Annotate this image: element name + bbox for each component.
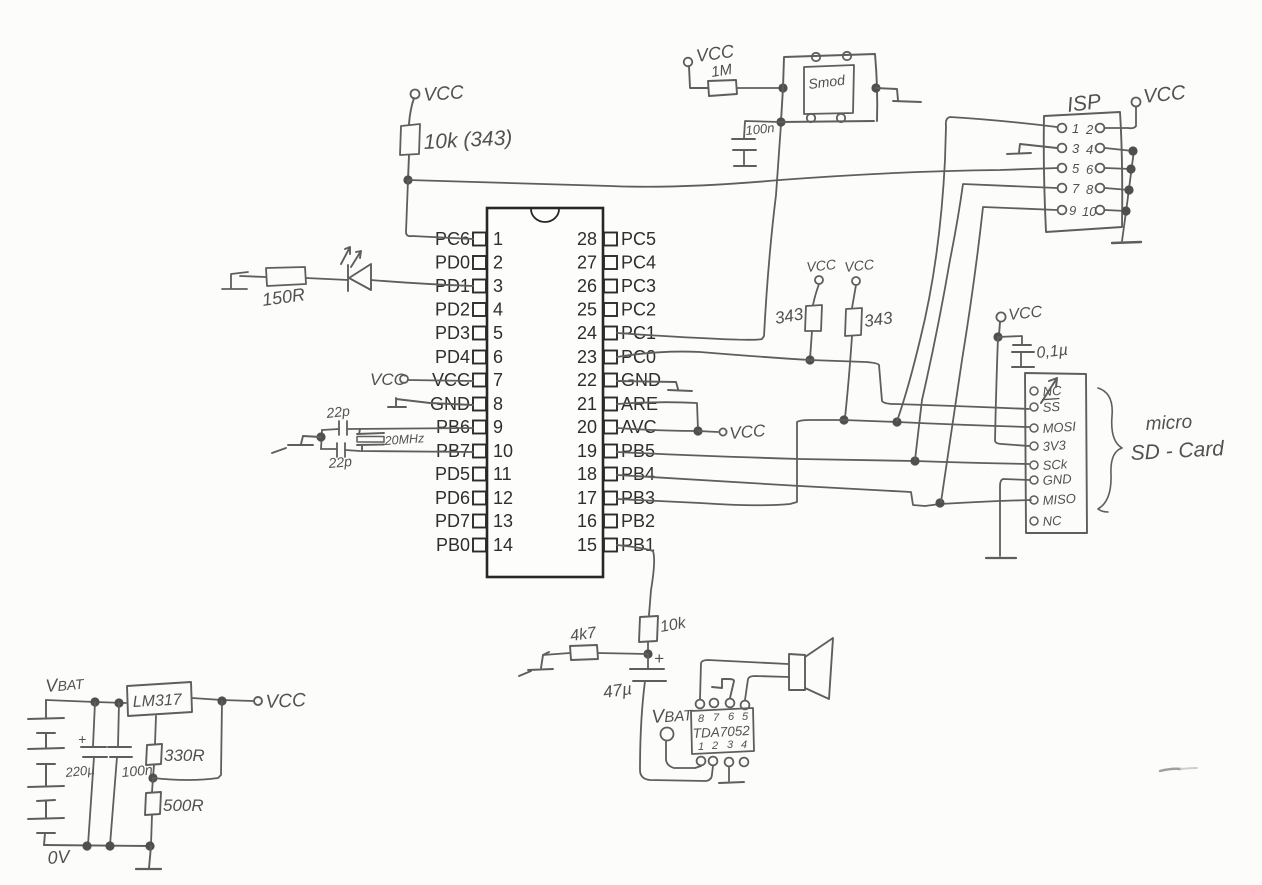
VCC terminal pin7	[370, 370, 473, 389]
wire TDA pin5 to speaker	[745, 676, 789, 700]
resistor R4 343	[845, 308, 894, 336]
ground (Smod right)	[876, 88, 921, 102]
svg-text:+: +	[78, 731, 86, 747]
ISP pin numbers	[1069, 121, 1097, 219]
capacitor C3 100n	[732, 120, 781, 165]
wire ISP pin8 to gnd bus	[1105, 188, 1129, 190]
wire R5 to node A	[737, 87, 783, 89]
svg-text:5: 5	[493, 323, 503, 343]
wire TDA pin8 to speaker	[700, 660, 788, 699]
regulator U3 LM317	[127, 682, 192, 716]
svg-text:MISO: MISO	[1042, 491, 1076, 508]
svg-text:PB5: PB5	[621, 441, 655, 461]
ground (C4)	[1012, 366, 1034, 368]
svg-text:1: 1	[1072, 121, 1079, 136]
svg-text:PB0: PB0	[436, 535, 470, 555]
wire LED to PD1 pin3	[371, 280, 473, 286]
svg-text:220µ: 220µ	[64, 762, 96, 780]
capacitor C2 22p	[321, 443, 353, 471]
node AVCC junction	[693, 426, 702, 435]
svg-text:8: 8	[698, 713, 705, 725]
svg-text:VCC: VCC	[1142, 82, 1187, 108]
wire ISP pin4 to gnd bus	[1105, 148, 1133, 151]
svg-text:22p: 22p	[327, 453, 353, 471]
U1 right pin labels	[621, 229, 661, 555]
ISP pin circles right	[1096, 124, 1105, 215]
svg-text:19: 19	[577, 441, 597, 461]
wire node A down to 100n node	[781, 88, 783, 121]
svg-text:PB2: PB2	[621, 511, 655, 531]
wire R7 to node E	[598, 653, 648, 654]
svg-text:22: 22	[577, 370, 597, 390]
resistor R7 4k7	[569, 624, 598, 660]
svg-text:3: 3	[493, 276, 503, 296]
VCC terminal (SD)	[996, 303, 1043, 323]
ground pin8	[388, 398, 473, 407]
VCC terminal (ISP)	[1132, 82, 1188, 108]
svg-text:PD5: PD5	[435, 464, 470, 484]
wire battery top rail	[46, 700, 126, 703]
svg-text:3: 3	[727, 739, 734, 751]
wire VCC to R5	[689, 66, 708, 88]
wire R1 to node RESET	[408, 155, 409, 180]
VCC terminal (top left)	[411, 82, 465, 106]
svg-text:VCC: VCC	[423, 82, 465, 106]
svg-text:0,1µ: 0,1µ	[1036, 342, 1069, 362]
ground (C3)	[734, 165, 756, 167]
svg-text:17: 17	[577, 488, 597, 508]
VCC terminal (psu out)	[254, 690, 307, 713]
svg-text:16: 16	[577, 511, 597, 531]
svg-text:7: 7	[493, 370, 503, 390]
resistor R2 150R	[261, 267, 306, 310]
wire AVCC pin20 to node	[617, 428, 698, 431]
node MOSI/ISP junction	[892, 417, 901, 426]
node C junction (100n)	[776, 117, 785, 126]
wire PB6 pin9 to C1	[348, 428, 473, 429]
ISP connector box	[1044, 90, 1123, 232]
svg-text:VCC: VCC	[1008, 303, 1044, 323]
svg-text:PD4: PD4	[435, 347, 470, 367]
VCC terminal (pullup R4)	[844, 256, 876, 308]
wire module bottom	[781, 121, 874, 122]
ground (ISP bus)	[1112, 242, 1141, 243]
svg-text:PD3: PD3	[435, 323, 470, 343]
wire node RESET to PC6 pin1	[406, 180, 473, 239]
svg-text:18: 18	[577, 464, 597, 484]
svg-text:6: 6	[1086, 162, 1094, 177]
capacitor C6 220u	[64, 702, 107, 845]
svg-text:PC4: PC4	[621, 253, 656, 273]
svg-text:25: 25	[577, 300, 597, 320]
resistor R1 10k pull-up	[400, 124, 513, 155]
svg-text:VCC: VCC	[806, 256, 838, 275]
svg-text:VBAT: VBAT	[651, 704, 695, 728]
stub TDA pin6	[712, 679, 734, 698]
svg-text:4: 4	[1086, 142, 1093, 157]
ground (crystal)	[272, 436, 321, 453]
U1 pin numbers 1-14	[493, 229, 513, 555]
svg-text:1M: 1M	[710, 61, 734, 81]
wire ISP pin1 to MOSI node	[897, 117, 1057, 421]
svg-text:13: 13	[493, 511, 513, 531]
TDA bottom pin circles	[697, 757, 749, 767]
U1 left pin boxes 1-14	[473, 233, 486, 552]
svg-text:PB1: PB1	[621, 535, 655, 555]
wire AREF pin21 to AVCC node	[617, 402, 698, 430]
svg-text:7: 7	[713, 712, 720, 724]
wire R4 to MOSI net	[845, 336, 852, 418]
ground (ISP pin3)	[1007, 144, 1057, 154]
svg-text:10: 10	[493, 441, 513, 461]
svg-text:2: 2	[493, 253, 503, 273]
svg-text:PD7: PD7	[435, 511, 470, 531]
svg-text:10: 10	[1082, 204, 1097, 219]
capacitor C4 0.1u	[998, 336, 1069, 366]
node E junction	[643, 649, 652, 658]
svg-text:PB3: PB3	[621, 488, 655, 508]
wire C2 to PB7 pin10	[345, 450, 473, 452]
svg-text:ISP: ISP	[1066, 90, 1102, 117]
U1 pin numbers 28-15	[577, 229, 597, 555]
svg-text:343: 343	[863, 308, 894, 331]
VCC terminal (pullup R3)	[806, 256, 838, 305]
svg-text:7: 7	[1072, 181, 1080, 196]
svg-text:LM317: LM317	[132, 691, 183, 711]
capacitor C5 47u	[602, 654, 666, 702]
node B junction (module right)	[871, 83, 880, 92]
svg-text:24: 24	[577, 323, 597, 343]
svg-text:SS: SS	[1042, 399, 1061, 415]
ground (TDA pin3)	[719, 782, 744, 783]
node VCC out junction	[217, 696, 226, 705]
U1 right pin boxes 28-15	[604, 233, 617, 552]
wire R2 to LED D1	[306, 278, 348, 280]
wire R8 to node F	[153, 765, 154, 777]
svg-text:4: 4	[741, 739, 747, 751]
svg-text:5: 5	[1072, 161, 1080, 176]
svg-text:8: 8	[1086, 182, 1094, 197]
svg-text:MOSI: MOSI	[1042, 419, 1077, 436]
node A junction	[778, 83, 787, 92]
svg-text:PC0: PC0	[621, 347, 656, 367]
svg-text:100n: 100n	[745, 120, 775, 138]
resistor R5 1M	[708, 61, 737, 96]
svg-text:PB6: PB6	[436, 417, 470, 437]
svg-text:6: 6	[493, 347, 503, 367]
wire ISP pin7 to SCK node	[915, 184, 1057, 460]
svg-text:0V: 0V	[47, 846, 72, 868]
VCC terminal (Smod)	[684, 41, 736, 67]
capacitor C1 22p	[322, 403, 351, 435]
ground (psu)	[136, 846, 161, 869]
SD pin labels	[1042, 383, 1077, 529]
ground pin22	[617, 381, 692, 391]
wire LM317 adj down	[155, 716, 156, 744]
svg-text:330R: 330R	[164, 746, 205, 765]
IC U2 TDA7052	[691, 708, 754, 754]
wire R9 to bottom rail	[151, 815, 152, 845]
svg-text:500R: 500R	[163, 796, 204, 815]
capacitor C7 100n	[108, 703, 154, 845]
svg-text:9: 9	[1069, 203, 1076, 218]
svg-text:14: 14	[493, 535, 513, 555]
ground (audio in)	[519, 652, 553, 676]
svg-text:VCC: VCC	[729, 421, 767, 443]
wire LM317 out to VCC	[192, 698, 253, 701]
svg-text:9: 9	[493, 417, 503, 437]
svg-text:PD0: PD0	[435, 253, 470, 273]
wire VCC to node D	[999, 322, 1000, 335]
svg-text:NC: NC	[1042, 513, 1062, 529]
wire PC0 pin23 to SD SS	[617, 352, 1029, 409]
svg-text:PD6: PD6	[435, 488, 470, 508]
svg-text:5: 5	[742, 711, 749, 723]
svg-text:3: 3	[1072, 141, 1080, 156]
svg-text:2: 2	[711, 740, 718, 752]
node D junction (SD VCC)	[993, 332, 1002, 341]
svg-text:21: 21	[577, 394, 597, 414]
wire ground to R2	[240, 276, 266, 277]
SD pin circles	[1030, 387, 1038, 525]
svg-text:20: 20	[577, 417, 597, 437]
wire PB3 pin17 MOSI net	[617, 420, 1029, 505]
svg-text:GND: GND	[1042, 471, 1072, 488]
svg-text:PC5: PC5	[621, 229, 656, 249]
SD card connector box	[1025, 373, 1087, 533]
wire node RESET to ISP pin5 (long)	[408, 168, 1058, 187]
resistor R9 500R	[145, 778, 204, 815]
wire C5 to TDA pin2	[640, 681, 713, 781]
svg-text:28: 28	[577, 229, 597, 249]
svg-text:VCC: VCC	[370, 370, 407, 389]
U1 left pin labels	[430, 229, 470, 555]
svg-text:6: 6	[728, 711, 735, 723]
node rail junctions bottom	[82, 841, 91, 850]
svg-text:PC2: PC2	[621, 300, 656, 320]
gnd bus wire	[1122, 150, 1134, 241]
svg-text:12: 12	[493, 488, 513, 508]
wire feedback node F to VCC out	[153, 701, 222, 780]
VBAT terminal (audio)	[651, 704, 701, 768]
svg-text:2: 2	[1085, 122, 1094, 137]
wire SD GND to ground	[1000, 479, 1030, 556]
wire ISP pin6 to gnd bus	[1105, 168, 1131, 169]
svg-text:26: 26	[577, 276, 597, 296]
TDA top pin circles	[696, 699, 750, 710]
svg-text:10k (343): 10k (343)	[423, 126, 513, 154]
resistor R8 330R	[146, 744, 205, 765]
battery BT1	[28, 700, 64, 845]
wire ISP pin9 to MISO node	[941, 207, 1057, 502]
svg-text:AVC: AVC	[621, 417, 657, 437]
wire VCC down to 3V3	[995, 337, 1029, 446]
svg-text:15: 15	[577, 535, 597, 555]
svg-text:1: 1	[698, 741, 704, 753]
wire R3 to PC0 net	[810, 331, 812, 359]
wire ISP pin10 to gnd bus	[1105, 210, 1126, 211]
ISP pin circles left	[1058, 124, 1067, 215]
bottom rail 0V	[44, 845, 151, 846]
wire cap bus down	[321, 430, 322, 449]
wire VCC to ISP pin2	[1105, 107, 1136, 128]
node R4/MOSI junction	[839, 415, 848, 424]
svg-text:VCC: VCC	[844, 256, 876, 275]
svg-text:20MHz: 20MHz	[383, 431, 425, 448]
node gnd bus junctions	[1128, 146, 1137, 155]
svg-text:22p: 22p	[325, 403, 351, 421]
node MISO junction	[935, 498, 944, 507]
IC U1 body (28-pin DIP)	[487, 208, 603, 577]
svg-text:+: +	[654, 649, 664, 668]
ground (LED return)	[222, 272, 248, 289]
svg-text:27: 27	[577, 253, 597, 273]
node xtal gnd junction	[316, 432, 325, 441]
wire module loop left/top/right	[783, 54, 877, 121]
svg-text:PD2: PD2	[435, 300, 470, 320]
VCC terminal (AVCC)	[698, 421, 767, 443]
wire PB1 pin15 down	[617, 545, 654, 615]
wire VCC to R1	[409, 98, 414, 124]
module M1 Smod box	[804, 65, 854, 114]
node F junction	[148, 773, 157, 782]
node rail junctions	[90, 697, 99, 706]
svg-text:23: 23	[577, 347, 597, 367]
arrow annotation (card)	[1041, 378, 1057, 403]
svg-text:1: 1	[493, 229, 503, 249]
speaker LS1	[789, 638, 833, 699]
svg-text:PC3: PC3	[621, 276, 656, 296]
svg-text:micro: micro	[1145, 412, 1192, 435]
svg-text:4: 4	[493, 300, 503, 320]
ground (SD)	[986, 557, 1016, 559]
pencil smudge	[1160, 769, 1181, 771]
wire PB5 pin19 SCK net	[617, 452, 1029, 464]
LED D1	[341, 247, 371, 291]
resistor R6 10k	[639, 615, 688, 642]
wire PB4 pin18 MISO net	[617, 475, 1031, 506]
crystal X1 20MHz	[357, 429, 425, 451]
svg-text:PB4: PB4	[621, 464, 655, 484]
svg-text:47µ: 47µ	[602, 679, 633, 702]
wire TDA pin3 to ground	[728, 767, 730, 781]
svg-text:VCC: VCC	[265, 690, 306, 713]
node RESET junction	[403, 175, 412, 184]
node PC0/R3 junction	[805, 355, 814, 364]
svg-text:8: 8	[493, 394, 503, 414]
brace micro SD label	[1098, 388, 1226, 512]
resistor R3 343	[773, 304, 822, 331]
svg-text:11: 11	[493, 464, 512, 484]
wire R6 to node E	[647, 642, 649, 653]
module pin circles	[807, 52, 851, 122]
wire PC1 pin24 to Smod node	[617, 124, 781, 340]
wire ground to R7	[543, 653, 570, 655]
svg-text:3V3: 3V3	[1042, 437, 1067, 454]
node SCK junction	[910, 456, 919, 465]
svg-text:GND: GND	[621, 370, 661, 390]
